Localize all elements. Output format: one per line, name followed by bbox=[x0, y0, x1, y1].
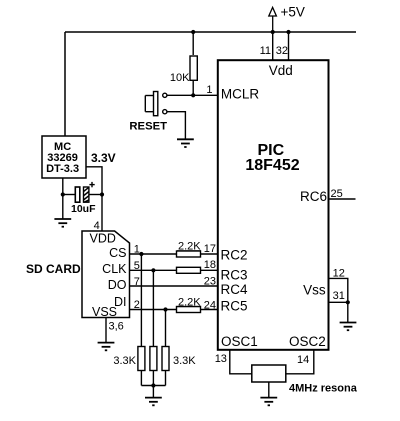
svg-text:11: 11 bbox=[260, 45, 271, 57]
svg-text:DO: DO bbox=[108, 278, 127, 292]
svg-text:10K: 10K bbox=[170, 72, 190, 84]
svg-text:3,6: 3,6 bbox=[109, 321, 124, 333]
svg-text:17: 17 bbox=[204, 243, 216, 255]
wire CLK row right bbox=[201, 269, 219, 271]
connector J1 SD CARD outline bbox=[82, 231, 130, 318]
wire reset lower contact bbox=[167, 112, 185, 140]
svg-text:CLK: CLK bbox=[102, 262, 127, 276]
svg-text:13: 13 bbox=[215, 353, 227, 365]
ground resonator bbox=[260, 398, 277, 406]
wire CS row right bbox=[201, 253, 219, 255]
svg-text:OSC1: OSC1 bbox=[221, 334, 258, 349]
regulator U2 MC33269DT-3.3 bbox=[42, 136, 86, 178]
svg-text:10uF: 10uF bbox=[71, 203, 96, 215]
wire R7 bottom bbox=[152, 371, 154, 386]
resistor R2 2.2K (CS) bbox=[177, 251, 201, 257]
resistor R7 3.3K bbox=[150, 347, 157, 371]
svg-text:SD CARD: SD CARD bbox=[26, 262, 81, 276]
switch S1 RESET button bbox=[145, 92, 167, 116]
wire Vss pin12 bbox=[329, 278, 348, 302]
wire RC6 pin bbox=[329, 198, 356, 200]
wire OSC1 pin13 bbox=[230, 350, 252, 374]
wire R8 bottom bbox=[165, 371, 167, 386]
svg-text:RC5: RC5 bbox=[221, 298, 248, 313]
wire CS row left bbox=[130, 253, 177, 255]
resonator X1 bbox=[252, 365, 286, 382]
wire regulator output bbox=[86, 167, 102, 231]
wire cap right lead bbox=[89, 194, 102, 196]
wire pulldown ground stem bbox=[152, 386, 154, 398]
svg-text:24: 24 bbox=[204, 299, 216, 311]
node junction Vss bbox=[346, 300, 350, 304]
wire CS pulldown drop bbox=[140, 254, 142, 347]
wire R6 bottom bbox=[140, 371, 142, 386]
resistor R8 3.3K bbox=[162, 347, 169, 371]
ground reset bbox=[177, 139, 194, 147]
svg-text:32: 32 bbox=[276, 45, 288, 57]
svg-text:25: 25 bbox=[331, 188, 343, 200]
svg-text:3.3V: 3.3V bbox=[91, 151, 116, 165]
node junction CLK pulldown bbox=[151, 268, 155, 272]
ground regulator bbox=[54, 219, 71, 227]
svg-text:18F452: 18F452 bbox=[245, 157, 299, 174]
svg-text:RC3: RC3 bbox=[221, 267, 248, 282]
ground SD VSS bbox=[98, 343, 115, 351]
wire top rail bbox=[65, 31, 356, 33]
wire CLK pulldown drop bbox=[152, 270, 154, 346]
svg-text:DT-3.3: DT-3.3 bbox=[46, 163, 79, 175]
svg-text:23: 23 bbox=[204, 275, 216, 287]
node junction MCLR bbox=[191, 93, 195, 97]
wire MCLR bbox=[167, 94, 218, 96]
resistor R5 2.2K (DI) bbox=[177, 307, 201, 313]
wire DI row right bbox=[201, 309, 219, 311]
wire DO row bbox=[130, 285, 219, 287]
power symbol +5V bbox=[269, 7, 277, 32]
wire pulldown common bbox=[141, 385, 165, 387]
svg-text:RC2: RC2 bbox=[221, 248, 248, 263]
svg-text:1: 1 bbox=[206, 84, 212, 96]
wire Vss pin31 bbox=[329, 301, 348, 303]
node junction Vdd pin32 bbox=[286, 30, 290, 34]
ground pulldown bbox=[145, 398, 162, 406]
resistor R3 (CLK) bbox=[177, 267, 201, 273]
node junction cap left bbox=[61, 192, 65, 196]
wire regulator ground pin bbox=[62, 178, 64, 219]
svg-text:MCLR: MCLR bbox=[221, 87, 260, 102]
svg-text:31: 31 bbox=[333, 290, 345, 302]
wire CLK row left bbox=[130, 269, 177, 271]
wire cap left lead bbox=[63, 194, 76, 196]
svg-text:4MHz resona: 4MHz resona bbox=[289, 383, 358, 395]
wire SD VSS stem bbox=[105, 318, 107, 343]
svg-text:CS: CS bbox=[109, 246, 126, 260]
wire regulator input bbox=[64, 32, 66, 136]
node junction cap right bbox=[100, 192, 104, 196]
svg-text:RC4: RC4 bbox=[221, 282, 248, 297]
IC U1 PIC18F452 bbox=[218, 60, 329, 350]
node junction 10K top rail bbox=[191, 30, 195, 34]
svg-text:12: 12 bbox=[333, 268, 345, 280]
wire DI pulldown drop bbox=[165, 310, 167, 347]
node junction pulldown common bbox=[151, 383, 155, 387]
svg-text:14: 14 bbox=[297, 354, 309, 366]
svg-text:+5V: +5V bbox=[281, 5, 305, 20]
svg-text:RESET: RESET bbox=[129, 120, 167, 132]
resistor R1 10K bbox=[190, 56, 197, 80]
node junction Vdd pin11 bbox=[271, 30, 275, 34]
svg-text:VDD: VDD bbox=[90, 232, 116, 246]
node junction CS pulldown bbox=[139, 252, 143, 256]
wire 10K top lead bbox=[192, 32, 194, 55]
svg-text:VSS: VSS bbox=[92, 305, 117, 319]
ground Vss bbox=[340, 323, 357, 331]
wire Vdd pin32 drop bbox=[288, 32, 290, 60]
svg-text:Vdd: Vdd bbox=[269, 63, 293, 78]
svg-text:RC6: RC6 bbox=[300, 189, 327, 204]
svg-text:18: 18 bbox=[204, 259, 216, 271]
svg-text:OSC2: OSC2 bbox=[289, 334, 326, 349]
wire OSC2 pin14 bbox=[286, 350, 314, 374]
svg-text:Vss: Vss bbox=[303, 283, 326, 298]
svg-text:4: 4 bbox=[94, 220, 100, 232]
svg-text:3.3K: 3.3K bbox=[113, 355, 136, 367]
svg-text:3.3K: 3.3K bbox=[173, 355, 196, 367]
wire Vdd pin11 drop bbox=[272, 32, 274, 60]
node junction DI pulldown bbox=[163, 307, 167, 311]
capacitor C1 10uF bbox=[75, 182, 94, 202]
wire 10K bottom lead bbox=[192, 81, 194, 96]
wire DI row left bbox=[130, 309, 177, 311]
wire Vss ground stem bbox=[347, 302, 349, 322]
wire resonator ground stem bbox=[268, 382, 270, 398]
resistor R6 3.3K bbox=[138, 347, 145, 371]
